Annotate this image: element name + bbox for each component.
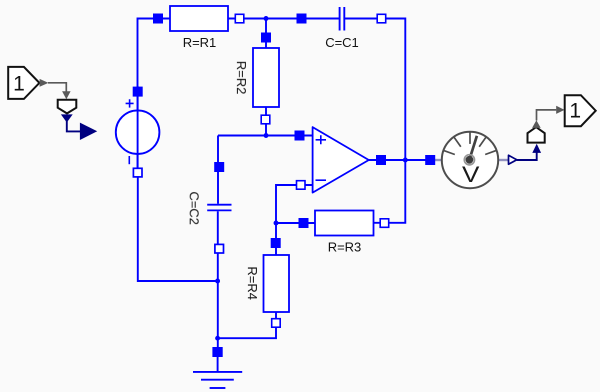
wire inverting input to R3/R4 node [218,185,313,338]
svg-text:1: 1 [13,73,25,96]
gray connection line input [48,83,66,92]
navy connection line voltmeter output to converter [517,150,537,160]
wire C1 right lead, feedback down to R3 right pin [344,19,405,223]
wire source internal lead [137,86,139,173]
capacitor C1 [340,7,345,31]
pin op-amp in+ (filled square) [295,131,305,141]
junction node inverting input / R3 / R4 [274,221,279,226]
wire node to R3 left pin [276,222,316,224]
navy connection line to source input [67,121,81,131]
wire R2 branch column [265,19,267,136]
resistor R2 [253,48,279,107]
navy arrowhead down from converter [61,114,73,122]
pin voltmeter.p (filled square) [425,155,435,165]
resistor R4 [264,255,290,312]
gray arrowhead into output pentagon [556,106,564,114]
resistor R3 [315,211,374,236]
resistor R1 [170,6,228,31]
pin R3.p (filled square) [299,218,309,228]
wire top rail from source top corner to C1 left plate [138,19,340,89]
signal converter pentagon (down) [58,100,77,114]
pin C1.p (filled square) [297,14,307,24]
voltmeter ticks [444,132,497,155]
wire C2 bottom lead down to ground pin [217,211,219,352]
wire voltmeter right lead to output connector triangle [498,159,509,161]
voltmeter needle [469,136,477,160]
gray arrowhead up from converter [532,120,541,128]
pin R4.n (open square) [272,319,281,328]
ground pin (filled square) [212,347,222,357]
wire C2 top lead [217,136,219,204]
svg-text:C=C1: C=C1 [325,35,359,50]
pin R2.n (open square) [261,115,270,124]
wire op-amp output to voltmeter [369,159,426,161]
junction node top of R2 [264,16,269,21]
pin op-amp in- (open square) [297,181,306,190]
output connector pentagon "1" [565,95,596,126]
svg-text:R=R1: R=R1 [183,35,217,50]
op-amp U1 triangle [313,127,369,193]
gray arrowhead down into converter [62,91,71,99]
pin R3.n (open square) [380,219,389,228]
gray arrow right of input pentagon [40,79,49,87]
junction node op-amp output [403,158,408,163]
ground stem [217,357,219,372]
op-amp plus mark [316,135,326,144]
pin C1.n (open square) [377,14,386,22]
pin C2.n (open square) [215,244,224,253]
svg-text:R=R2: R=R2 [234,61,249,95]
voltage source internal lead [137,92,139,169]
svg-text:1: 1 [569,100,581,123]
voltmeter output connector triangle [509,155,517,164]
voltage source V1 circle [116,110,160,154]
ground bars [193,372,242,388]
svg-text:V: V [462,162,480,187]
pin source.p (filled square) [133,87,143,97]
capacitor C2 [207,205,231,211]
op-amp minus mark [316,179,327,181]
voltage source plus mark [126,99,134,107]
RealInput triangle of source [80,123,97,140]
wire noninverting input row [218,135,313,137]
gray connection line output [537,110,557,121]
output converter pentagon (up) [528,127,545,143]
svg-text:C=C2: C=C2 [187,191,202,225]
voltmeter V gauge circle [442,132,498,188]
pin R2.p (filled square) [261,33,271,43]
navy arrowhead up into converter [532,144,541,153]
input connector pentagon "1" [8,67,39,99]
voltage source minus mark [128,156,130,164]
svg-text:R=R3: R=R3 [328,240,362,255]
pin source.n (open square) [133,168,142,177]
pin R4.p (filled square) [271,238,281,248]
svg-text:R=R4: R=R4 [245,266,260,300]
voltmeter hub [464,155,474,165]
pin R1.p (filled square) [153,14,163,24]
pin op-amp out (filled square) [376,155,386,165]
junction node R4 bottom / ground [215,336,220,341]
pin R1.n (open square) [235,14,244,22]
junction node source-C2 bottom rail [215,279,220,284]
pin C2.p (filled square) [214,162,224,172]
junction node bottom of R2 [264,133,269,138]
wire source bottom to ground rail [138,172,218,281]
voltmeter left lead [435,159,443,161]
